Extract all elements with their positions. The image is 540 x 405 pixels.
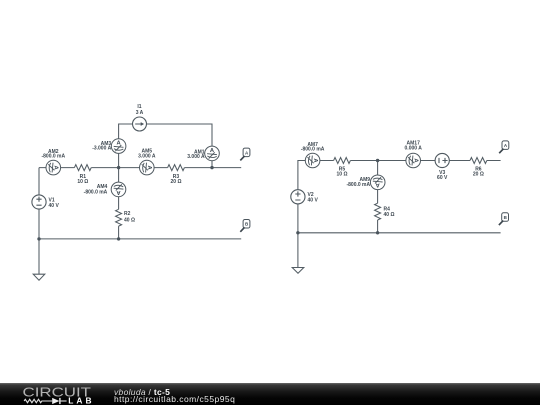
svg-text:-800.0 mA: -800.0 mA: [301, 147, 325, 153]
svg-text:40 V: 40 V: [49, 203, 60, 209]
svg-text:LAB: LAB: [68, 395, 94, 405]
svg-text:-800.0 mA: -800.0 mA: [41, 153, 65, 159]
svg-text:-800.0 mA: -800.0 mA: [84, 190, 108, 196]
svg-text:3 A: 3 A: [136, 110, 144, 116]
svg-text:20 Ω: 20 Ω: [171, 179, 182, 185]
svg-text:40 Ω: 40 Ω: [384, 212, 395, 218]
svg-text:-3.000 A: -3.000 A: [92, 145, 111, 151]
svg-text:60 V: 60 V: [437, 175, 448, 181]
svg-text:3.000 A: 3.000 A: [187, 154, 205, 160]
svg-text:10 Ω: 10 Ω: [337, 172, 348, 178]
svg-text:R2: R2: [124, 211, 131, 217]
svg-text:0.000 A: 0.000 A: [405, 146, 423, 152]
svg-text:10 Ω: 10 Ω: [77, 179, 88, 185]
svg-text:40 V: 40 V: [308, 197, 319, 203]
svg-text:-800.0 mA: -800.0 mA: [346, 182, 370, 188]
svg-text:3.000 A: 3.000 A: [138, 154, 156, 160]
svg-text:20 Ω: 20 Ω: [473, 172, 484, 178]
svg-text:40 Ω: 40 Ω: [124, 217, 135, 223]
